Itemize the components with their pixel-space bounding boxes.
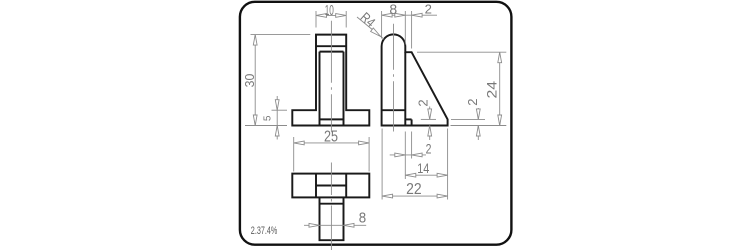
dimension 2 right: dimension line and outside arrows xyxy=(477,108,479,119)
radius leader R4: line xyxy=(357,17,384,39)
dimension 30: dimension line xyxy=(254,35,256,126)
dimension 5: dimension line and outside arrows xyxy=(276,96,278,110)
dimension 25: dimension line xyxy=(294,142,369,144)
side view: base top edge xyxy=(382,109,406,111)
dimension 2 right: extension line xyxy=(451,118,485,120)
front view: inner rib top edge xyxy=(320,51,344,53)
plan view: rib left edge xyxy=(315,174,317,198)
svg-text:2.37.4%: 2.37.4% xyxy=(251,225,278,237)
extension line: step right edge extended down xyxy=(411,132,413,159)
plan view: rib mid edge xyxy=(316,185,346,187)
front view: step edge inside base xyxy=(320,118,344,120)
svg-text:2: 2 xyxy=(465,98,480,105)
side view: step right edge xyxy=(411,119,413,125)
svg-text:25: 25 xyxy=(324,127,338,145)
svg-text:2: 2 xyxy=(426,141,432,157)
svg-text:14: 14 xyxy=(417,161,429,177)
dimension 10: extension lines xyxy=(315,11,317,28)
dimension 5: extension line xyxy=(272,109,288,111)
dimension 24: dimension line xyxy=(499,52,501,125)
svg-text:2: 2 xyxy=(425,2,432,17)
side view: step top edge xyxy=(405,118,411,120)
svg-text:2: 2 xyxy=(416,99,431,106)
dimension 24: extension lines xyxy=(417,51,506,53)
extension line: base right edge extended down xyxy=(447,129,449,200)
radius leader R4: arrowhead xyxy=(371,28,381,37)
svg-text:30: 30 xyxy=(242,74,258,88)
side view: plate back edge xyxy=(404,52,406,125)
dimension 8 plan: dimension line with outside arrows xyxy=(304,224,366,226)
svg-text:8: 8 xyxy=(359,210,367,226)
plan view vertical centerline xyxy=(330,163,332,250)
side view: outline with rounded top and slanted gusset xyxy=(382,34,448,125)
dimension 30: extension lines xyxy=(251,34,311,36)
plan view: column band edge xyxy=(320,203,344,205)
front view vertical centerline xyxy=(330,21,332,133)
svg-text:22: 22 xyxy=(406,181,422,198)
dimension 2 step: dimension line and outside arrows xyxy=(429,107,431,120)
extension line: plate back edge extended down xyxy=(404,132,406,180)
svg-text:10: 10 xyxy=(325,1,334,18)
extension line: plate front edge extended down xyxy=(381,129,383,200)
dimension 2 width: dimension line with outside arrows xyxy=(390,154,426,156)
svg-text:24: 24 xyxy=(485,81,501,99)
front view: inner rib left edge xyxy=(319,52,321,126)
dimension 8 and 2 top: shared dimension line xyxy=(382,14,437,16)
dimension 25: extension lines xyxy=(293,137,295,172)
svg-text:5: 5 xyxy=(262,115,273,121)
drawing sheet border frame xyxy=(240,2,512,245)
plan view: base rectangle xyxy=(292,174,369,198)
plan view: lower column outline xyxy=(320,197,344,240)
dimension 22: dimension line xyxy=(382,195,448,197)
svg-text:R4: R4 xyxy=(357,9,378,30)
front view: rounded-top tangent edge xyxy=(316,45,346,47)
front view: T-shaped outline xyxy=(292,35,369,126)
side view vertical centerline xyxy=(392,24,394,132)
svg-text:8: 8 xyxy=(389,1,397,17)
dimension 10: dimension line xyxy=(316,14,346,16)
dimension 2 step: extension line xyxy=(421,118,436,120)
dimension 14: dimension line xyxy=(405,174,447,176)
front view: inner rib right edge xyxy=(343,52,345,126)
plan view: rib right edge xyxy=(345,174,347,198)
dimension 8 top: extension lines xyxy=(381,11,383,39)
